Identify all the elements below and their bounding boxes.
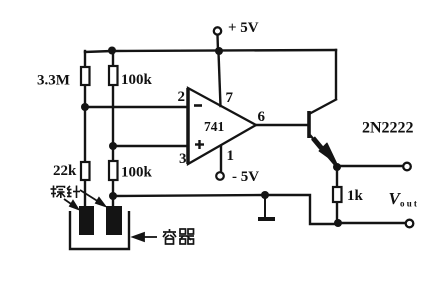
svg-text:22k: 22k [53,163,77,179]
wire +5V stub [216,35,219,51]
node junction dot probe right [109,192,117,200]
node +5V terminal [214,27,221,34]
node junction dot 100k top [108,47,116,55]
op-amp U1 741 [188,88,256,164]
node -5V terminal [216,172,224,180]
wire left column top [84,51,86,67]
wire pin3 input [113,145,188,147]
svg-text:100k: 100k [121,165,153,181]
node junction dot 3.3M bottom [81,103,89,111]
svg-text:2: 2 [178,89,186,105]
wire 100k column bottom [112,180,114,208]
svg-text:6: 6 [258,109,266,125]
wire pin7 [219,52,221,106]
node Vout bottom terminal [406,220,414,228]
wire collector vertical [335,50,337,99]
svg-text:2N2222: 2N2222 [362,120,414,137]
probe electrode right [106,206,122,235]
resistor R4 100k [109,161,118,180]
transistor Q1 2N2222 [309,99,337,166]
arrow to container [133,233,157,241]
svg-text:1k: 1k [347,188,364,204]
svg-text:7: 7 [226,90,234,106]
arrow to left probe [64,199,78,209]
wire left column bottom [84,180,86,208]
wire 1k bottom lead [336,202,338,223]
wire 100k column mid [112,85,114,161]
ground [258,195,275,219]
wire pin1 to -5V [220,146,222,172]
svg-text:1: 1 [227,148,235,164]
resistor R1 3.3M [81,67,90,85]
wire left column mid [84,85,86,162]
wire pin2 input [85,106,188,108]
node junction dot ground [261,191,269,199]
node junction dot 100k mid [109,142,117,150]
svg-text:+ 5V: + 5V [228,20,259,36]
svg-text:100k: 100k [121,72,153,88]
wire emitter to Vout [337,165,404,167]
node Vout top terminal [403,163,411,171]
wire ground net [113,195,338,224]
wire top rail [85,50,336,52]
label probe (Chinese) [51,186,81,199]
node junction dot +5V [215,47,223,55]
probe electrode left [79,206,94,235]
container (vessel) [70,211,129,249]
label container (Chinese) [163,229,194,244]
svg-text:3: 3 [179,151,187,167]
wire pin6 output [256,124,308,126]
svg-text:741: 741 [204,119,225,134]
resistor R3 22k [81,162,90,180]
wire 100k column top [112,50,114,66]
wire 1k top lead [336,167,338,187]
resistor R2 100k [109,66,118,85]
node junction dot 1k bottom [334,219,342,227]
svg-text:3.3M: 3.3M [37,73,70,89]
wire 1k bottom to Vout [338,222,406,224]
node junction dot emitter [333,163,341,171]
arrow to right probe [80,190,105,206]
svg-text:out: out [400,199,419,209]
resistor R5 1k [333,187,342,202]
svg-text:- 5V: - 5V [232,169,259,185]
